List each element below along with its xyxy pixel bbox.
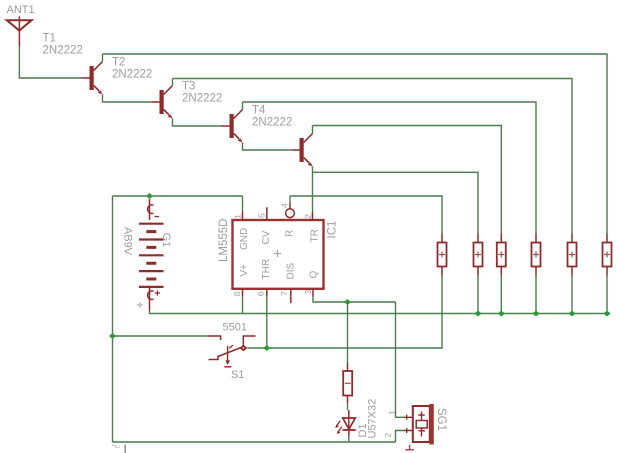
- svg-text:THR: THR: [261, 259, 272, 280]
- wire battery minus top to IC pin1 net: [113, 195, 243, 197]
- wire net line4 T4 collector to R3: [313, 126, 502, 234]
- svg-text:DIS: DIS: [285, 263, 296, 280]
- svg-text:T1: T1: [43, 33, 56, 45]
- wire T4 emitter down to IC pin 2: [312, 166, 314, 211]
- resistor R3 body: [497, 243, 506, 267]
- svg-text:2N2222: 2N2222: [252, 117, 292, 129]
- resistor R7 bottom stub: [347, 396, 349, 404]
- wire IC pin8 to V+ rail: [242, 297, 244, 314]
- wire T4 collector to line4: [312, 126, 314, 134]
- svg-text:2N2222: 2N2222: [182, 93, 222, 105]
- resistor R5 origin cross: [569, 252, 575, 258]
- LED D1 triangle: [343, 418, 356, 429]
- resistor R3 bottom stub: [500, 267, 502, 276]
- resistor R2 origin cross: [475, 252, 481, 258]
- svg-text:1: 1: [233, 214, 243, 219]
- svg-text:6: 6: [256, 291, 266, 296]
- IC1 origin cross: [274, 250, 281, 257]
- resistor R6 origin cross: [604, 252, 610, 258]
- junction GND rail to switch: [109, 333, 116, 339]
- IC1 pin 8 V+ stub: [242, 289, 244, 297]
- IC1 pin 4 R stub: [289, 203, 291, 209]
- wire IC pin1 to battery minus net: [242, 196, 244, 212]
- svg-text:LM555D: LM555D: [218, 219, 230, 262]
- LED D1 emission arrow 1: [337, 421, 341, 426]
- resistor R3 top stub: [500, 234, 502, 243]
- IC1 pin 1 GND stub: [242, 212, 244, 221]
- wire bottom GND rail: [113, 441, 396, 443]
- speaker SG1 pin 1 stub: [404, 415, 413, 420]
- svg-text:2: 2: [383, 433, 393, 438]
- transistor T3: [222, 110, 243, 143]
- LED D1 anode pin: [348, 410, 350, 418]
- svg-text:AB9V: AB9V: [122, 227, 134, 256]
- switch S1 right contact bracket: [243, 336, 255, 345]
- wire T2 collector to line2: [172, 79, 174, 86]
- svg-text:2: 2: [303, 214, 313, 219]
- antenna ANT1: [7, 16, 32, 46]
- wire T2 emitter to T3 base: [173, 118, 222, 126]
- resistor R5 body: [568, 243, 577, 267]
- svg-text:T4: T4: [252, 105, 266, 117]
- svg-text:CV: CV: [261, 230, 272, 244]
- wire R5 bottom to rail: [571, 276, 573, 314]
- switch S1 contact point: [239, 345, 247, 352]
- svg-text:2N2222: 2N2222: [43, 45, 83, 57]
- wire net line1 T1 collector to R6: [103, 54, 608, 234]
- svg-text:1: 1: [387, 410, 397, 415]
- svg-text:GND: GND: [239, 228, 250, 250]
- junction THR at switch net: [263, 345, 270, 351]
- wire T1 collector to top line: [102, 54, 104, 62]
- resistor R1 origin cross: [439, 252, 445, 258]
- svg-text:TR: TR: [310, 229, 321, 242]
- IC1 pin 4 R inversion circle: [286, 209, 295, 218]
- resistor R4 bottom stub: [535, 267, 537, 276]
- IC1 LM555D body: [233, 220, 324, 289]
- battery G1 top clip terminal: [148, 199, 154, 220]
- svg-text:V+: V+: [239, 264, 250, 277]
- wire switch output to R1 bottom: [247, 276, 442, 349]
- svg-text:U57X32: U57X32: [367, 399, 379, 439]
- IC1 pin 7 DIS stub: [290, 289, 292, 303]
- wire net line6 pin4 to R1 top: [290, 196, 442, 234]
- IC1 pin 2 TR stub: [312, 212, 314, 221]
- switch S1 actuator arrow: [227, 346, 229, 361]
- LED D1 cathode pin to GND rail: [348, 431, 350, 437]
- resistor R6 body: [603, 243, 612, 267]
- wire GND to switch left pin: [113, 335, 209, 337]
- resistor R4 body: [532, 243, 541, 267]
- wire battery plus to V+ rail: [150, 311, 608, 314]
- speaker SG1 diaphragm bar: [429, 404, 433, 445]
- switch S1 left fixed contact: [208, 336, 221, 340]
- resistor R7 top stub: [347, 363, 349, 371]
- wire Q net to speaker pin 1: [396, 302, 405, 417]
- battery G1 origin cross: [137, 302, 143, 308]
- wire net line5 T4 emitter to R2: [313, 172, 479, 233]
- LED D1 emission arrow 2: [338, 427, 342, 432]
- IC1 pin 5 CV stub: [266, 207, 268, 220]
- speaker SG1 body: [413, 406, 430, 442]
- wire IC pin4 to net line6: [289, 196, 291, 203]
- wire Q net down to resistor R7: [347, 302, 349, 363]
- resistor R4 origin cross: [533, 252, 539, 258]
- resistor R1 bottom stub: [441, 267, 443, 276]
- junction R4 at V+ rail: [532, 311, 539, 317]
- transistor T2: [152, 86, 173, 119]
- resistor R3 origin cross: [498, 252, 504, 258]
- svg-text:T3: T3: [182, 81, 195, 93]
- cut-off text marks bottom left: [124, 445, 126, 453]
- wire R6 bottom to rail: [606, 276, 608, 314]
- wire T1 emitter to T2 base: [103, 94, 152, 102]
- junction battery minus: [146, 193, 153, 199]
- svg-text:2N2222: 2N2222: [112, 69, 152, 81]
- LED D1 cathode bar: [343, 429, 356, 431]
- battery G1 minus sign: [155, 216, 160, 218]
- wire R2 bottom to rail: [477, 276, 479, 314]
- svg-text:3: 3: [303, 290, 313, 295]
- IC1 pin 3 Q stub: [312, 289, 314, 297]
- wire net line2 T2 collector to R5: [173, 79, 573, 234]
- svg-text:G1: G1: [160, 233, 172, 248]
- svg-text:T2: T2: [112, 57, 125, 69]
- wire IC pin3 Q output: [313, 297, 396, 303]
- switch S1 blade arrow tick: [229, 345, 233, 348]
- resistor R5 top stub: [571, 234, 573, 243]
- wire GND rail to speaker pin 2: [396, 431, 405, 443]
- wire net line3 T3 collector to R4: [243, 102, 537, 234]
- svg-text:4: 4: [280, 203, 290, 208]
- svg-text:S1: S1: [231, 369, 244, 381]
- resistor R5 bottom stub: [571, 267, 573, 276]
- svg-text:R: R: [284, 230, 295, 237]
- battery G1 cells: [139, 224, 164, 287]
- svg-text:IC1: IC1: [327, 221, 339, 239]
- wire antenna to T1 base: [19, 46, 81, 78]
- svg-text:5501: 5501: [223, 322, 247, 334]
- wire IC pin6 to switch net: [266, 297, 268, 349]
- resistor R2 bottom stub: [477, 267, 479, 276]
- svg-text:SG1: SG1: [435, 408, 447, 431]
- battery G1 plus sign: [155, 290, 160, 295]
- svg-text:5: 5: [257, 213, 267, 218]
- resistor R2 top stub: [477, 234, 479, 243]
- IC1 pin 6 THR stub: [266, 289, 268, 297]
- switch S1 blade: [218, 348, 241, 357]
- junction Q net at LED branch: [344, 299, 351, 305]
- resistor R6 bottom stub: [606, 267, 608, 276]
- transistor T4: [292, 134, 313, 167]
- junction R2 at V+ rail: [474, 311, 481, 317]
- transistor T1: [82, 62, 103, 95]
- resistor R1 body: [438, 243, 447, 267]
- svg-text:8: 8: [232, 291, 242, 296]
- resistor R7 origin cross: [345, 382, 351, 384]
- resistor R2 body: [474, 243, 483, 267]
- svg-text:Q: Q: [309, 271, 320, 279]
- junction R6 at V+ rail: [603, 311, 610, 317]
- junction R5 at V+ rail: [568, 311, 575, 317]
- switch S1 pivot bracket: [209, 356, 219, 360]
- wire T3 collector to line3: [242, 102, 244, 110]
- resistor R1 top stub: [441, 234, 443, 243]
- junction R3 at V+ rail: [498, 311, 505, 317]
- wire R4 bottom to rail: [535, 276, 537, 314]
- svg-text:7: 7: [279, 291, 289, 296]
- wire T3 emitter to T4 base: [243, 142, 292, 150]
- battery G1 bottom clip terminal: [148, 288, 154, 311]
- wire left vertical GND rail: [112, 196, 114, 442]
- resistor R7 body: [343, 371, 352, 396]
- resistor R6 top stub: [606, 234, 608, 243]
- wire R3 bottom to rail: [500, 276, 502, 314]
- wire resistor R7 to LED D1: [347, 403, 349, 410]
- resistor R4 top stub: [535, 234, 537, 243]
- cut-off mark below speaker: [405, 445, 414, 450]
- svg-text:ANT1: ANT1: [7, 4, 35, 16]
- speaker SG1 pin 2 stub: [404, 428, 413, 433]
- speaker SG1 piezo element: [416, 412, 427, 437]
- switch S1 actuator bar: [224, 366, 231, 368]
